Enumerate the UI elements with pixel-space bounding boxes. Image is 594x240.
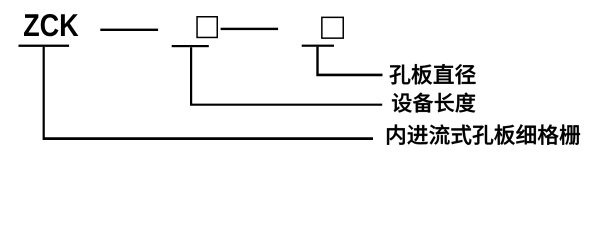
label: 内进流式孔板细格栅 (inward-flow orifice plate fine screen) (387, 124, 580, 144)
wire: leader from box 2 down then right to top label (316, 47, 382, 76)
wire: dash between box 1 and box 2 (221, 28, 279, 30)
field box 2 (orifice plate diameter placeholder) (322, 17, 343, 38)
tick bar under box 2 (302, 45, 334, 47)
field box 1 (equipment length placeholder) (197, 17, 217, 38)
tick bar under ZCK (19, 45, 70, 47)
wire: dash between ZCK and box 1 (100, 29, 158, 31)
model code ZCK (24, 14, 78, 36)
tick bar under box 1 (172, 45, 209, 47)
wire: leader from box 1 down then right to middle label (190, 47, 382, 106)
wire: leader from ZCK down then right to bottom label (43, 47, 373, 140)
label: 设备长度 (equipment length) (392, 93, 475, 113)
label: 孔板直径 (orifice plate diameter) (390, 64, 476, 84)
